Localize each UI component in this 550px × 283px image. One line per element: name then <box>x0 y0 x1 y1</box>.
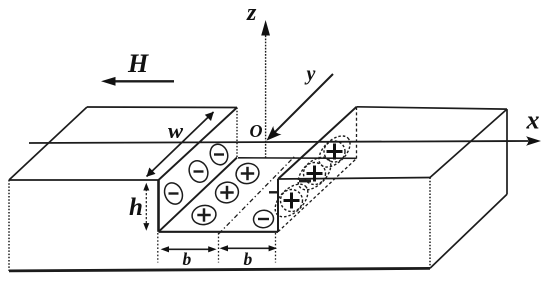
svg-text:O: O <box>250 121 263 141</box>
svg-text:w: w <box>168 118 184 143</box>
svg-text:b: b <box>183 249 192 269</box>
svg-text:H: H <box>127 49 149 78</box>
svg-text:h: h <box>129 194 143 221</box>
svg-text:b: b <box>244 249 253 269</box>
svg-text:y: y <box>305 63 316 85</box>
svg-text:z: z <box>246 0 257 26</box>
svg-text:x: x <box>526 106 540 135</box>
